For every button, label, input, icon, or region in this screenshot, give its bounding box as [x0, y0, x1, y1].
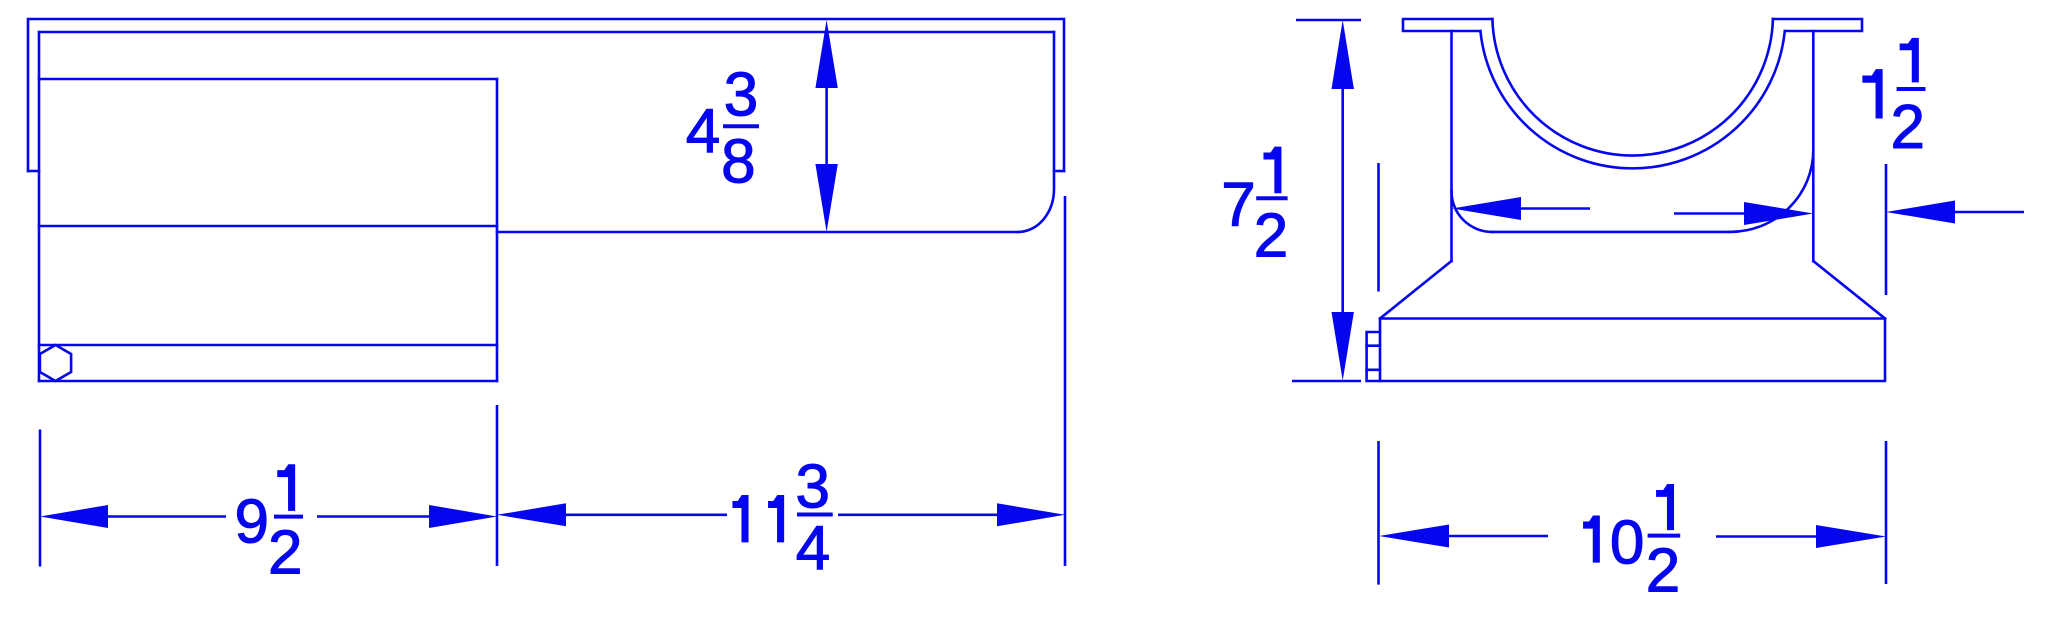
- dim 1-1/2 right shaft: [1955, 211, 2024, 214]
- glyph 1 second of 11: [769, 496, 784, 542]
- left inner fillet: [1451, 191, 1492, 232]
- glyph 1 first of 11: [733, 496, 748, 542]
- dim 9-1/2 shaft right: [317, 515, 429, 518]
- long bottom line of right section: [497, 231, 1018, 234]
- U cutout inner arc: [1492, 19, 1773, 156]
- body right edge with rounded corner: [1018, 32, 1054, 232]
- dim 4-3/8 shaft: [825, 88, 828, 164]
- arrowhead 10-1/2 right: [1816, 525, 1886, 548]
- dim 7-1/2 shaft: [1341, 89, 1344, 312]
- arrowhead inner width right: [1744, 202, 1813, 225]
- svg-text:7: 7: [1221, 170, 1255, 239]
- left block right edge: [496, 79, 499, 381]
- dim 11-3/4 shaft left: [566, 513, 727, 516]
- arrowhead 1-1/2 right: [1886, 201, 1955, 224]
- dim 7-1/2 bottom tick: [1292, 380, 1361, 383]
- right flare diagonal: [1813, 261, 1885, 319]
- left flare diagonal: [1380, 261, 1452, 319]
- left block bottom edge: [39, 380, 497, 383]
- svg-text:3: 3: [724, 61, 758, 130]
- glyph 1 of 1-1/2 numerator: [1900, 38, 1918, 81]
- dim 9-1/2 left ext line: [39, 430, 42, 567]
- arrowhead 7-1/2 up: [1332, 20, 1354, 89]
- arrowhead 11-3/4 right: [997, 503, 1065, 526]
- fraction bar 3/8: [723, 124, 759, 128]
- dim 1-1/2 ext line upper: [1885, 164, 1888, 295]
- inner shelf line: [1492, 231, 1730, 234]
- dim 11-3/4 right ext line: [1064, 196, 1067, 566]
- dim 10-1/2 left ext line: [1377, 163, 1380, 292]
- arrowhead 9-1/2 left: [40, 505, 108, 528]
- svg-text:3: 3: [796, 453, 830, 522]
- bolt strip top line: [39, 344, 497, 347]
- svg-text:4: 4: [796, 514, 830, 583]
- body horizontal line upper: [39, 78, 497, 81]
- glyph 1 of 10-1/2 numerator: [1657, 485, 1674, 530]
- fraction bar 3/4: [797, 513, 833, 517]
- glyph 1 whole of 1-1/2: [1863, 70, 1882, 118]
- left flange: [1403, 19, 1492, 31]
- inner width left shaft: [1521, 207, 1590, 210]
- left wall: [1450, 31, 1453, 261]
- dim 10-1/2 shaft left: [1449, 535, 1548, 538]
- inner width right shaft: [1674, 212, 1744, 215]
- glyph 1 of 9-1/2 numerator: [278, 465, 295, 511]
- bolt side detail: [1367, 332, 1380, 381]
- dim 9-1/2 shaft left: [108, 515, 226, 518]
- right wall: [1812, 31, 1815, 261]
- fraction bar 1/2 of 7: [1256, 196, 1287, 200]
- arrowhead 7-1/2 down: [1332, 312, 1354, 381]
- outer lip top edge: [28, 19, 1064, 171]
- U cutout outer arc: [1480, 31, 1784, 168]
- svg-text:4: 4: [686, 97, 720, 166]
- arrowhead 4-3/8 up: [815, 20, 837, 88]
- svg-text:2: 2: [268, 519, 302, 588]
- right inner fillet: [1730, 150, 1813, 232]
- glyph 1 of 7-1/2 numerator: [1264, 147, 1281, 193]
- dim 10-1/2 shaft right: [1716, 535, 1816, 538]
- svg-text:0: 0: [1610, 508, 1644, 577]
- fraction bar 1/2 of 10: [1648, 534, 1681, 538]
- bolt detail divider 1: [1367, 344, 1380, 347]
- dim 10-1/2 right ext line lower: [1885, 441, 1888, 584]
- hex bolt head: [40, 345, 71, 381]
- dim 11-3/4 shaft right: [838, 513, 997, 516]
- dim 7-1/2 top tick: [1296, 19, 1361, 22]
- svg-text:8: 8: [721, 128, 755, 197]
- arrowhead 9-1/2 right: [429, 505, 497, 528]
- arrowhead 11-3/4 left: [497, 503, 566, 526]
- arrowhead 10-1/2 left: [1379, 525, 1449, 548]
- svg-text:9: 9: [235, 487, 269, 556]
- left block mid line: [39, 225, 497, 228]
- dim 10-1/2 left ext line lower: [1377, 441, 1380, 585]
- fraction bar 1/2 of 1: [1897, 87, 1926, 91]
- right flange: [1773, 19, 1862, 31]
- glyph 1 of 10: [1584, 516, 1600, 562]
- outer lip right bottom step: [1054, 170, 1064, 173]
- dim 9-1/2 mid ext line: [496, 405, 499, 566]
- svg-text:2: 2: [1646, 536, 1680, 605]
- arrowhead 4-3/8 down: [815, 164, 837, 232]
- base rectangle: [1380, 319, 1885, 382]
- fraction bar 1/2 of 9: [274, 515, 303, 519]
- outer lip left bottom step: [28, 170, 39, 173]
- arrowhead inner width left: [1452, 197, 1521, 220]
- body left edge: [38, 32, 41, 381]
- body top edge: [39, 31, 1054, 34]
- bolt detail divider 2: [1367, 368, 1380, 371]
- svg-text:2: 2: [1254, 202, 1288, 271]
- svg-text:2: 2: [1891, 93, 1925, 162]
